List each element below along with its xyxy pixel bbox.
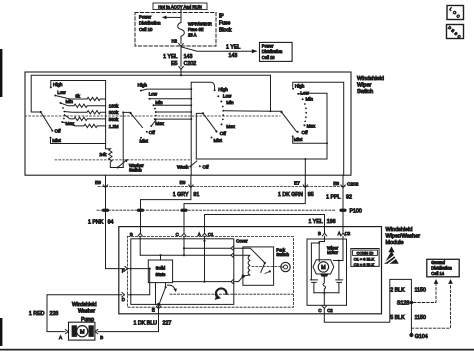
module pin B [138, 233, 142, 236]
cover box [243, 247, 274, 285]
washer switch arm [117, 167, 119, 169]
relay coil [234, 255, 250, 275]
module inner circuit box [131, 239, 234, 305]
svg-text:A: A [338, 231, 341, 236]
svg-text:Off: Off [203, 165, 210, 170]
module pin D and wire from washer pump [47, 294, 122, 296]
motor ground bus [314, 292, 339, 294]
gang3 contact Off [215, 130, 217, 132]
svg-text:Windshield: Windshield [386, 227, 413, 233]
svg-text:E8: E8 [333, 181, 339, 187]
fuse WPR/WSHR 9E 25A [178, 23, 185, 37]
svg-text:Switch: Switch [357, 89, 373, 95]
svg-text:Low: Low [149, 91, 158, 96]
svg-text:Module: Module [386, 240, 404, 246]
solid state output stub [155, 283, 157, 305]
capacitor left [310, 280, 317, 293]
svg-text:560k: 560k [109, 117, 119, 122]
resistor 9k [55, 96, 105, 101]
svg-text:B: B [130, 232, 133, 237]
ground G104 [409, 333, 413, 337]
svg-text:1 YEL: 1 YEL [163, 54, 177, 60]
svg-text:Min: Min [306, 97, 314, 102]
motor pin B [322, 233, 326, 236]
svg-text:1.2M: 1.2M [109, 124, 119, 129]
svg-text:Low: Low [223, 94, 232, 99]
gang3 contact High [214, 89, 216, 91]
wire branch 1 YEL 143 to power distribution [181, 47, 252, 51]
wire E6 drop and link to gang3 High [191, 82, 214, 175]
svg-text:Min: Min [66, 99, 74, 104]
svg-text:92: 92 [346, 195, 352, 201]
solid state box [148, 260, 172, 283]
svg-text:1 PPL: 1 PPL [326, 195, 340, 201]
svg-text:Distribution: Distribution [431, 265, 452, 270]
connector P100 terminal on PNK wire [102, 209, 109, 212]
washer pump box [69, 322, 95, 340]
wire 1 DK BLU 227 [98, 304, 159, 331]
rotation arc small [168, 285, 175, 289]
gang1 contact Max [61, 121, 63, 123]
gang1 delay arm [131, 113, 143, 127]
svg-text:1 RED: 1 RED [29, 311, 45, 317]
svg-text:Motor: Motor [327, 250, 339, 255]
gang1 delay pickup vertical [123, 112, 130, 167]
wire E7 drop [304, 158, 306, 160]
gang4 delay contacts [304, 103, 306, 105]
gang3 arm feed wire [196, 113, 203, 159]
svg-text:91: 91 [193, 192, 199, 198]
splice S128 [410, 301, 414, 305]
svg-text:M: M [321, 265, 326, 271]
switch arm gang1 [40, 111, 42, 113]
svg-text:Power: Power [262, 44, 274, 49]
svg-text:1 YEL: 1 YEL [308, 219, 322, 225]
svg-text:9k: 9k [75, 93, 80, 98]
arrow to Power Distribution Cell 10 [166, 16, 181, 18]
svg-text:WPR/WSHR: WPR/WSHR [188, 21, 212, 26]
svg-text:1150: 1150 [415, 288, 426, 294]
svg-text:Min: Min [155, 100, 163, 105]
svg-text:Mist: Mist [214, 138, 223, 143]
svg-text:High: High [53, 82, 63, 87]
svg-text:Washer: Washer [78, 309, 95, 315]
svg-text:C1: C1 [208, 232, 214, 237]
svg-text:300k: 300k [109, 110, 119, 115]
svg-text:E6: E6 [180, 180, 186, 186]
pump pin A [65, 330, 68, 334]
svg-text:25 A: 25 A [188, 32, 197, 37]
resistor 1.2M [62, 122, 105, 128]
gang2 contact Off [146, 131, 148, 133]
ESD sensitive symbol [384, 251, 398, 264]
resistor 300k [64, 111, 105, 114]
gang2 contact Max [150, 125, 152, 127]
svg-text:Cover: Cover [236, 239, 248, 244]
svg-text:Max: Max [226, 124, 235, 129]
svg-text:H2: H2 [172, 38, 178, 43]
park switch actuator circle [281, 262, 290, 271]
gang1 contact High [50, 86, 52, 88]
gang4 mist wire [293, 136, 327, 143]
splice junction to pin E [157, 303, 160, 306]
svg-text:C202: C202 [347, 181, 359, 187]
svg-text:E5: E5 [171, 61, 178, 67]
svg-text:B: B [318, 231, 321, 236]
svg-text:Mist: Mist [52, 138, 61, 143]
capacitor right [336, 280, 343, 293]
gang3 delay contacts [222, 106, 224, 108]
svg-text:M: M [80, 329, 85, 335]
motor pin C [323, 293, 325, 306]
svg-text:Cell 10: Cell 10 [139, 27, 153, 32]
gang3 contact Max [221, 123, 223, 125]
connector P100 terminal on DK GRN wire [181, 209, 188, 212]
gang4 feed and arm [271, 75, 282, 111]
svg-text:P100: P100 [350, 209, 362, 215]
resistor 560k [65, 115, 106, 121]
svg-text:Switch: Switch [276, 252, 289, 257]
svg-text:Block: Block [219, 27, 232, 33]
svg-text:Switch: Switch [129, 168, 142, 173]
gang3 contact Low [217, 95, 219, 97]
svg-text:A: A [198, 232, 201, 237]
svg-text:143: 143 [184, 54, 193, 60]
windshield wiper/washer module outer box [119, 227, 382, 314]
svg-text:Fuse 9E: Fuse 9E [188, 27, 204, 32]
coil to splice dot [243, 275, 250, 276]
svg-text:C: C [318, 308, 321, 313]
dashed reference from S128 [414, 284, 437, 303]
module pin E [156, 306, 160, 309]
svg-text:High: High [218, 87, 228, 92]
svg-text:160k: 160k [109, 104, 119, 109]
svg-text:Low: Low [57, 90, 66, 95]
wire into park contact [234, 248, 265, 263]
svg-text:Ground: Ground [431, 260, 445, 265]
dashed gang position line [25, 115, 280, 117]
gang4 contact Mist [292, 135, 294, 137]
gang1 contact Low [54, 95, 56, 97]
gang2 contact Mist [140, 137, 142, 139]
IP fuse block dashed box [135, 13, 216, 47]
svg-text:Wiper: Wiper [357, 82, 372, 88]
svg-text:Cell 10: Cell 10 [262, 55, 275, 60]
svg-text:227: 227 [163, 321, 172, 327]
wire PPL to motor pin A [342, 212, 344, 233]
rotation arrow large [216, 288, 227, 297]
svg-text:E: E [152, 307, 155, 312]
gang4 contact Min [302, 98, 304, 100]
gang4 contact Max [303, 124, 305, 126]
page border mark left upper [0, 49, 2, 97]
box Power Distribution Cell 10 (right) [260, 42, 293, 61]
svg-text:Mist: Mist [140, 138, 149, 143]
svg-text:E9: E9 [95, 180, 101, 186]
wire B to solid state and cover [140, 254, 231, 256]
ground distribution box [427, 259, 459, 277]
wire 2 BLK 1150 from motor C to S128 G104 [324, 279, 411, 335]
motor B wire [311, 236, 324, 280]
connector P100 terminal on PPL wire [340, 209, 347, 212]
wire C to cover terminal [184, 247, 231, 249]
svg-text:95: 95 [308, 192, 314, 198]
svg-text:B: B [100, 335, 103, 340]
svg-text:Cell 14: Cell 14 [431, 271, 444, 276]
gang4 contact Low [297, 93, 299, 95]
svg-text:5 BLK: 5 BLK [390, 315, 405, 321]
gang3 contact Min [220, 101, 222, 103]
svg-text:Off: Off [220, 131, 227, 136]
svg-text:Windshield: Windshield [357, 76, 384, 82]
svg-text:Wash: Wash [177, 165, 189, 170]
wire E8 1 PPL 92 [342, 175, 344, 208]
button LOC [447, 6, 464, 20]
svg-text:State: State [155, 272, 166, 277]
resistor 24k vertical [106, 149, 124, 168]
wire E6 1 GRY 91 [141, 175, 191, 208]
svg-text:2 BLK: 2 BLK [390, 288, 405, 294]
svg-text:Off: Off [55, 129, 62, 134]
inner box terminal arrows to cover [231, 246, 234, 251]
wire from Hot box to fuse [180, 10, 182, 23]
washer contact Off [199, 165, 201, 167]
gang2 contact High [140, 90, 142, 92]
wiper motor box [307, 239, 347, 305]
wire E9 1 PNK 94 [105, 175, 107, 208]
windshield wiper switch box [25, 72, 351, 175]
button DESC [447, 25, 464, 39]
wire E5 feed inside switch [31, 72, 270, 112]
wire DK GRN to module pin C [183, 212, 185, 233]
gang2 row wires to E6 drop [141, 89, 191, 126]
park switch mechanical dashed link [252, 266, 280, 268]
svg-text:C202: C202 [184, 61, 197, 67]
svg-text:High: High [138, 83, 148, 88]
svg-text:24k: 24k [99, 152, 107, 157]
gang1 contact Mist [50, 137, 52, 139]
svg-text:CONN ID: CONN ID [357, 251, 374, 256]
svg-text:1 PNK: 1 PNK [88, 220, 104, 226]
gang2 delay contacts [154, 108, 156, 110]
motor A wire [334, 236, 344, 280]
gang3 contact Mist [211, 137, 213, 139]
svg-text:Wiper/Washer: Wiper/Washer [386, 234, 421, 240]
module dashed boundary [127, 236, 293, 307]
svg-text:Mist: Mist [294, 137, 303, 142]
park contact pivot [264, 262, 266, 264]
gang1 contact Off [51, 130, 53, 132]
wire High row to bus [51, 81, 106, 88]
svg-text:1150: 1150 [415, 315, 426, 321]
svg-text:C2: C2 [345, 231, 351, 236]
svg-text:D: D [122, 297, 125, 302]
wire A row to cover terminal [173, 281, 231, 283]
motor symbol [313, 260, 334, 274]
connector P100 dashed line [97, 209, 336, 211]
page border bottom line [0, 349, 474, 351]
gang4 plate top wire to E8 [293, 82, 344, 175]
svg-text:1 DK BLU: 1 DK BLU [133, 321, 157, 327]
svg-text:228: 228 [50, 311, 59, 317]
wire 1 PNK 94 below P100 [106, 212, 125, 269]
svg-text:196: 196 [327, 219, 336, 225]
module pin A [202, 233, 206, 236]
gang4 contact High [292, 88, 294, 90]
wire GRY to module pin B [140, 212, 142, 233]
resistor bus vertical [105, 81, 107, 149]
gang4 contact Off [297, 131, 299, 133]
gang1 delay contacts [62, 107, 64, 109]
wire 1 YEL 196 jumper [205, 215, 325, 233]
svg-text:1 DK GRN: 1 DK GRN [278, 192, 303, 198]
svg-text:Min: Min [226, 100, 234, 105]
svg-text:Max: Max [307, 124, 316, 129]
motor pin A [341, 233, 345, 236]
svg-text:Distribution: Distribution [139, 21, 161, 26]
connector arrow E5 C202 [179, 67, 184, 72]
box Hot In ACCY And RUN [153, 3, 207, 10]
module pin F [125, 266, 128, 270]
svg-text:C2 = 3 BLK: C2 = 3 BLK [354, 262, 375, 267]
dashed reference from G104 wire [411, 284, 450, 328]
svg-text:Hot In ACCY And RUN: Hot In ACCY And RUN [158, 4, 201, 9]
svg-text:High: High [295, 83, 305, 88]
module pin C [182, 233, 186, 236]
wire 1 RED 228 [47, 295, 65, 332]
svg-text:Max: Max [155, 121, 164, 126]
svg-text:143: 143 [229, 53, 238, 59]
gang3 delay row to gang4 arm feed [223, 110, 270, 112]
dashed washer link line [55, 159, 191, 161]
wire Mist row to bus [51, 138, 106, 144]
svg-text:1 GRY: 1 GRY [173, 192, 189, 198]
svg-text:E7: E7 [294, 181, 300, 187]
svg-text:Off: Off [149, 130, 156, 135]
svg-text:F: F [122, 269, 125, 274]
switch arm gang3 [203, 113, 217, 131]
svg-text:C: C [176, 232, 179, 237]
wire E7 1 DK GRN 95 [184, 175, 305, 208]
module internal switch arm [165, 286, 167, 288]
svg-text:Distribution: Distribution [262, 49, 283, 54]
svg-text:Fuse: Fuse [219, 21, 230, 27]
svg-text:S128: S128 [397, 301, 409, 307]
svg-text:Windshield: Windshield [72, 302, 97, 308]
svg-text:1 YEL: 1 YEL [226, 45, 240, 51]
connector P100 terminal on GRY wire [137, 209, 144, 212]
park contact point [269, 270, 271, 272]
washer pump motor symbol [72, 325, 77, 337]
svg-text:94: 94 [108, 220, 114, 226]
pump pin B [95, 330, 98, 334]
resistor 160k [61, 103, 106, 108]
connector C202 dashed line [98, 186, 345, 188]
svg-text:Power: Power [139, 14, 152, 19]
wire 1 YEL 143 down to E5 [180, 46, 182, 66]
gang4 low row U wire [196, 93, 327, 159]
svg-text:IP: IP [219, 14, 224, 20]
page border mark left lower [0, 318, 2, 346]
gang1 contact Min [60, 102, 62, 104]
svg-text:C2: C2 [327, 308, 333, 313]
svg-text:Solid: Solid [156, 266, 166, 271]
svg-text:G104: G104 [415, 334, 428, 340]
CONN ID table [351, 249, 379, 267]
svg-text:Off: Off [302, 130, 309, 135]
mechanical dashed link lower [170, 293, 293, 295]
motor breaker squiggle [323, 277, 326, 293]
connector arrows C202 [103, 183, 107, 187]
